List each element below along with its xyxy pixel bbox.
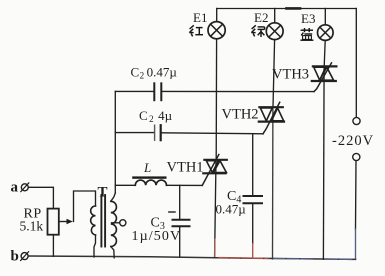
wire bottom bus blue segment 2 [325, 258, 352, 260]
svg-text:C20.47µ: C20.47µ [131, 65, 178, 81]
wire E2 column through triac to bottom bus [272, 107, 274, 259]
triac VTH1 [202, 155, 227, 186]
inductor L with core [132, 176, 166, 185]
wire E1 column red tinge [214, 239, 216, 257]
triac VTH2 [259, 102, 284, 134]
label green char 绿 [251, 25, 264, 37]
terminal upper -220V [353, 117, 360, 124]
lamp E2 [266, 23, 283, 40]
svg-text:E2: E2 [254, 10, 268, 25]
wire RP bottom lead [52, 235, 54, 257]
svg-text:T: T [98, 185, 108, 201]
wire secondary bottom lead [111, 247, 114, 258]
transformer T primary winding [91, 206, 96, 235]
label red char 红 [189, 25, 203, 36]
terminal b [21, 252, 29, 261]
wire center tap [112, 222, 120, 224]
wire wiper riser to primary [74, 191, 96, 222]
potentiometer RP [48, 209, 73, 235]
wire secondary top lead [111, 193, 116, 201]
wire left bus vertical [114, 91, 116, 193]
capacitor C4 [244, 134, 263, 258]
wire E2 column [273, 40, 275, 108]
wire E1 column through triac to bottom bus [215, 160, 216, 258]
triac VTH3 [312, 63, 337, 92]
svg-text:VTH2: VTH2 [222, 107, 259, 123]
capacitor C3 [169, 185, 190, 256]
transformer T secondary winding [111, 201, 117, 246]
wire primary bottom lead [94, 235, 96, 257]
wire bottom bus blue segment 1 [274, 258, 314, 261]
svg-text:5.1k: 5.1k [20, 219, 44, 234]
wire bottom bus red segment [219, 257, 268, 260]
terminal center tap [120, 220, 126, 226]
svg-text:b: b [11, 249, 19, 265]
terminal lower -220V [353, 153, 360, 160]
svg-text:VTH3: VTH3 [272, 67, 309, 83]
wire bottom bus [29, 256, 356, 259]
svg-text:0.47µ: 0.47µ [216, 202, 247, 217]
wire from a to RP [28, 187, 53, 208]
wire right drop to terminal [355, 9, 357, 118]
svg-text:1µ/50V: 1µ/50V [132, 229, 182, 244]
svg-text:L: L [143, 160, 151, 175]
svg-text:E1: E1 [193, 10, 207, 25]
terminal a [21, 183, 29, 192]
wire E3 lamp top lead [324, 9, 326, 25]
svg-text:a: a [11, 180, 19, 196]
wire inductor branch y185 [115, 184, 135, 186]
svg-text:C24µ: C24µ [139, 108, 173, 124]
wire gate y133 (bus to VTH2 gate) [115, 132, 153, 134]
wire E3 column through triac to bottom bus [322, 66, 325, 259]
wire E3 column [324, 40, 325, 66]
transformer T core [101, 195, 105, 247]
lamp E3 [318, 25, 334, 41]
capacitor C2 0.47u [154, 83, 161, 100]
svg-text:VTH1: VTH1 [167, 160, 204, 176]
wire E1 lamp top lead [216, 9, 218, 22]
svg-text:-220V: -220V [332, 133, 374, 149]
wire top bus [217, 7, 357, 9]
wire lower right drop [355, 161, 358, 229]
capacitor C2 4u [155, 125, 161, 140]
wire lower right drop blue part [355, 229, 357, 259]
svg-text:E3: E3 [301, 11, 315, 26]
lamp E1 [208, 22, 225, 39]
wire gate bus y91 (C2 0.47 to VTH3 gate) [115, 90, 153, 92]
wire E2 lamp top lead [274, 9, 276, 23]
label blue char 蓝 [300, 28, 313, 40]
wire E1 column [215, 39, 217, 160]
